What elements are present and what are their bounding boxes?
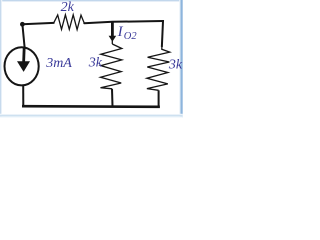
wire top-left segment bbox=[22, 23, 53, 24]
current source I1 value label 3mA bbox=[45, 56, 72, 71]
svg-text:3mA: 3mA bbox=[45, 56, 72, 71]
resistor R2 value label 3k (left of middle resistor) bbox=[88, 56, 103, 71]
wire top-right segment bbox=[84, 21, 163, 23]
node A junction dot bbox=[20, 22, 25, 27]
resistor R2 3k (middle vertical zigzag) bbox=[101, 22, 122, 89]
svg-text:I: I bbox=[117, 24, 124, 40]
current label I_O2 bbox=[117, 24, 138, 42]
wire right vertical (top-right corner down to R3) bbox=[162, 21, 163, 46]
svg-text:O2: O2 bbox=[124, 31, 138, 42]
wire R3 bottom stub bbox=[158, 90, 160, 106]
wire from node A down to current source bbox=[22, 24, 24, 47]
svg-text:3k: 3k bbox=[88, 56, 103, 71]
resistor R3 value label 3k (right of right resistor) bbox=[168, 58, 183, 73]
current source I1 arrow (downward) bbox=[17, 47, 30, 72]
resistor R3 3k (right vertical zigzag) bbox=[147, 46, 170, 90]
wire current source bottom stub bbox=[22, 85, 24, 106]
wire bottom segment bbox=[23, 105, 158, 108]
resistor R1 value label 2k bbox=[61, 0, 75, 15]
resistor R1 2k (horizontal zigzag) bbox=[54, 15, 85, 30]
svg-text:2k: 2k bbox=[61, 0, 75, 15]
wire R2 bottom stub bbox=[111, 89, 114, 107]
current arrow I_O2 bbox=[109, 22, 117, 42]
current source I1 circle bbox=[5, 47, 39, 85]
svg-text:3k: 3k bbox=[168, 58, 183, 73]
